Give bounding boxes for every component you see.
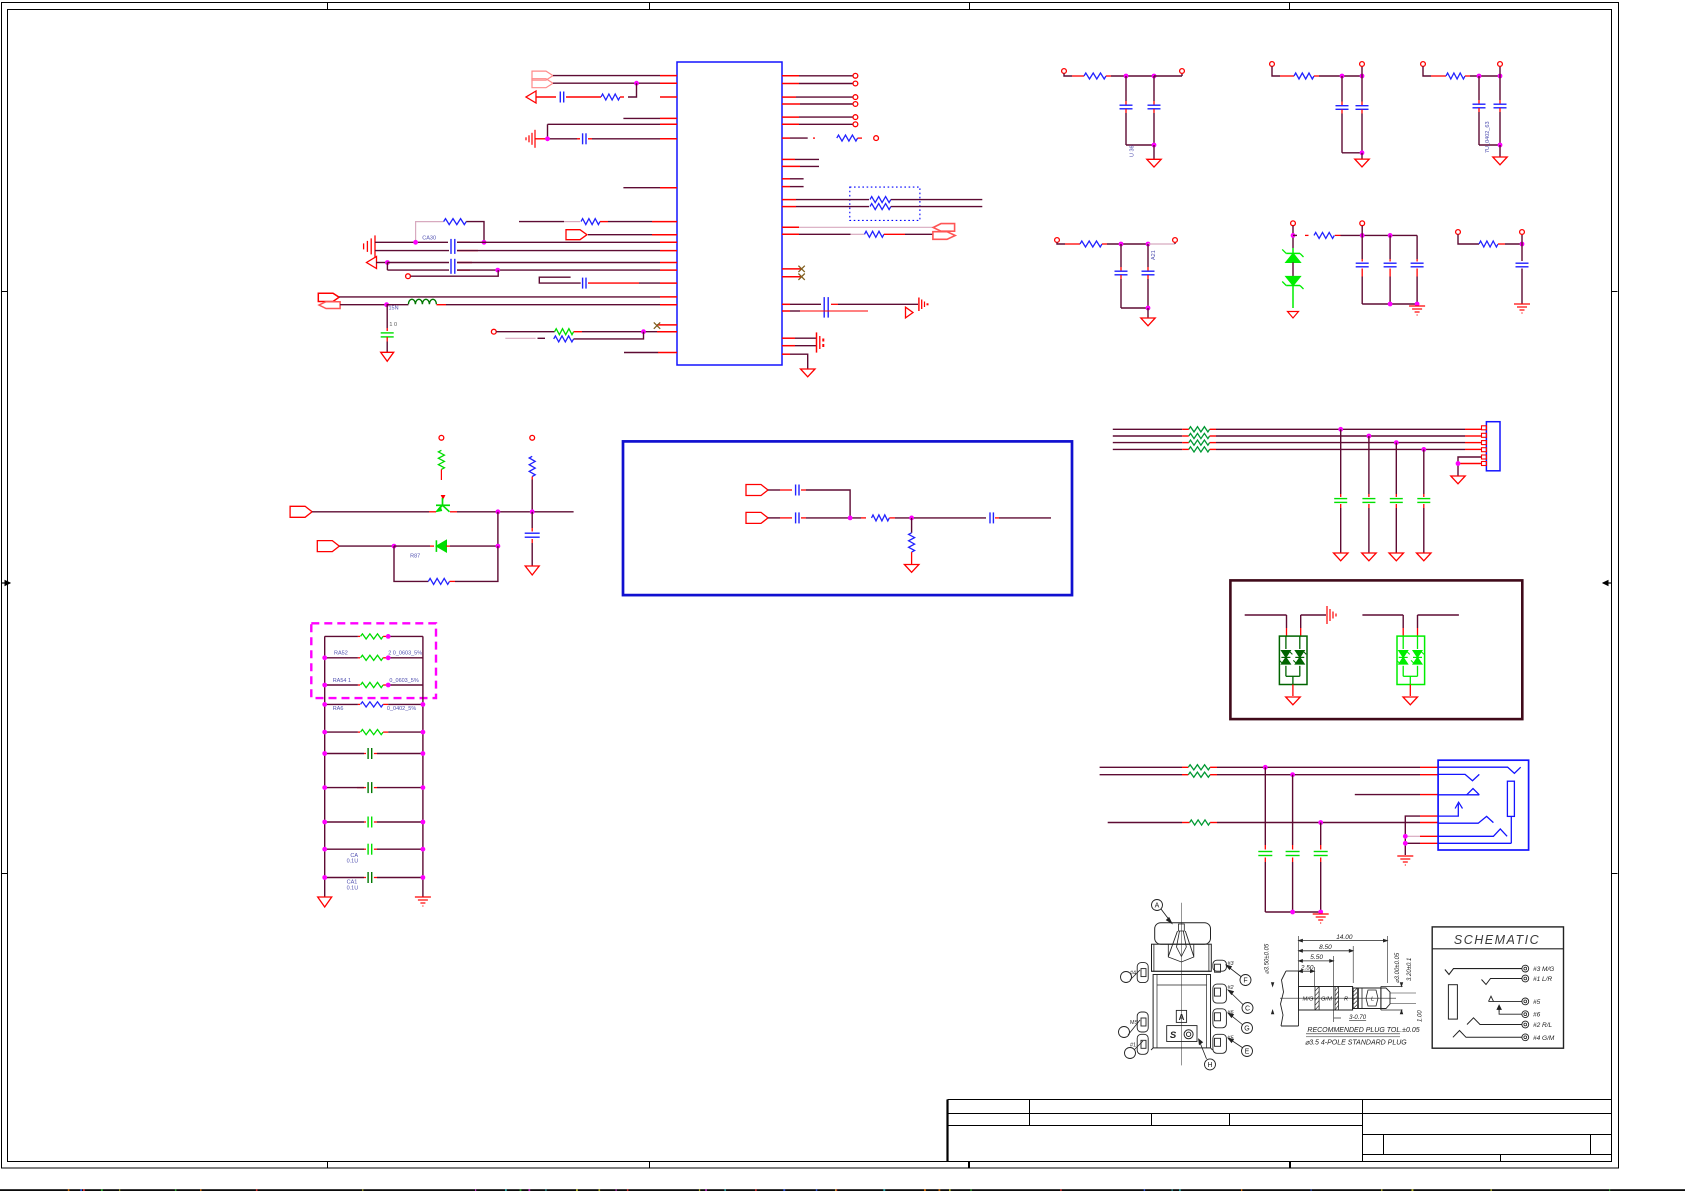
svg-text:#5: #5	[1533, 999, 1541, 1006]
svg-text:CA30: CA30	[422, 236, 436, 242]
svg-text:A21: A21	[1151, 250, 1157, 260]
svg-text:H: H	[1207, 1062, 1212, 1069]
svg-text:L: L	[1371, 997, 1374, 1003]
svg-text:8.50: 8.50	[1319, 944, 1332, 951]
svg-text:#1 L/R: #1 L/R	[1533, 976, 1552, 983]
svg-text:1 0: 1 0	[389, 322, 397, 328]
svg-text:G: G	[1244, 1026, 1249, 1033]
svg-text:2.50: 2.50	[1300, 964, 1314, 971]
svg-text:M/G: M/G	[1303, 997, 1314, 1003]
svg-text:5.50: 5.50	[1310, 954, 1323, 961]
svg-text:A: A	[1155, 903, 1160, 910]
svg-text:0_0603_5%: 0_0603_5%	[389, 678, 418, 684]
svg-text:3-0.70: 3-0.70	[1349, 1015, 1367, 1021]
svg-text:C: C	[1245, 1006, 1250, 1013]
svg-text:RA54 1: RA54 1	[333, 678, 351, 684]
svg-text:F: F	[1243, 978, 1247, 985]
svg-text:U 36: U 36	[1130, 145, 1136, 157]
svg-text:#2 R/L: #2 R/L	[1533, 1022, 1553, 1029]
svg-text:3.20±0.1: 3.20±0.1	[1407, 958, 1413, 981]
svg-text:#4 G/M: #4 G/M	[1533, 1035, 1555, 1042]
svg-text:0.1U: 0.1U	[347, 859, 359, 865]
svg-text:1.00: 1.00	[1418, 1010, 1424, 1022]
svg-text:#3 M/G: #3 M/G	[1533, 966, 1554, 973]
svg-text:#6: #6	[1533, 1012, 1541, 1019]
svg-text:⌀3.5 4-POLE STANDARD PLUG: ⌀3.5 4-POLE STANDARD PLUG	[1305, 1040, 1407, 1047]
svg-text:⌀3.50±0.05: ⌀3.50±0.05	[1265, 943, 1271, 974]
svg-text:SCHEMATIC: SCHEMATIC	[1454, 933, 1540, 947]
svg-text:A: A	[1179, 1013, 1185, 1022]
svg-text:RA52: RA52	[334, 651, 348, 657]
svg-text:G/M: G/M	[1321, 997, 1332, 1003]
svg-text:14.00: 14.00	[1336, 934, 1353, 941]
svg-text:15N: 15N	[389, 306, 399, 312]
svg-text:⌀3.00±0.05: ⌀3.00±0.05	[1395, 952, 1401, 983]
svg-text:RA6: RA6	[333, 706, 344, 712]
svg-text:S: S	[1170, 1030, 1177, 1041]
svg-text:0.1U: 0.1U	[347, 885, 359, 891]
svg-text:2 0_0603_5%: 2 0_0603_5%	[388, 651, 422, 657]
svg-text:RECOMMENDED PLUG TOL.±0.05: RECOMMENDED PLUG TOL.±0.05	[1307, 1027, 1419, 1034]
svg-text:0_0402_5%: 0_0402_5%	[387, 706, 416, 712]
svg-text:7U_0402_63: 7U_0402_63	[1485, 121, 1491, 153]
svg-text:R87: R87	[410, 554, 420, 560]
svg-text:E: E	[1245, 1049, 1250, 1056]
